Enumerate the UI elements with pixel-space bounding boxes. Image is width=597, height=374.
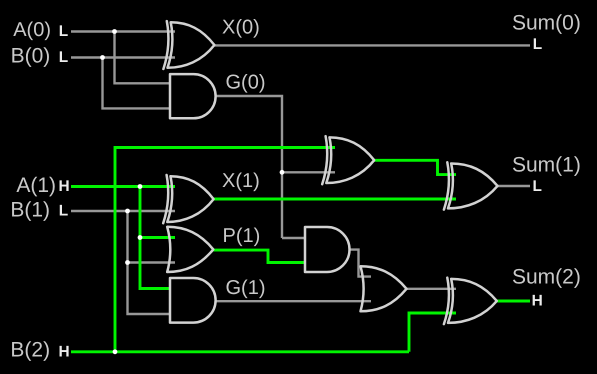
wire B(1) branch down to AND G1 bottom input [128,211,171,314]
wire Sum(0) from X0 output [214,44,530,46]
wire A(0) to XOR X0 [71,30,175,32]
wire G0 output right then down [216,96,283,238]
wire B(2) branch up to XOR U6 top input [115,148,335,352]
svg-text:L: L [59,49,68,66]
wire B(1) branch to OR P1 bottom input [128,261,176,263]
xor gate U9 Sum(1) [444,162,498,209]
wire B(1) to XOR X1 [71,210,175,212]
xor gate U10 Sum(2) [444,278,497,324]
svg-text:B(2): B(2) [10,339,50,362]
svg-text:G(0): G(0) [226,72,266,94]
and gate G(1) [170,278,216,323]
wire A(1) branch down to AND G1 top input [140,187,170,289]
and gate U7 carry and [305,227,350,272]
junction dot B(2) branch [113,349,118,354]
svg-text:A(1): A(1) [16,174,56,197]
xor gate U6 first stage of Sum1 [322,136,374,184]
wire Sum(2) output [497,300,530,303]
svg-text:P(1): P(1) [223,225,261,247]
svg-text:Sum(1): Sum(1) [512,153,581,176]
junction dot B(1) branch [125,209,130,214]
svg-text:G(1): G(1) [226,277,266,299]
svg-text:L: L [533,36,542,53]
svg-text:Sum(2): Sum(2) [512,265,581,288]
and gate G(0) [170,74,216,118]
svg-text:B(0): B(0) [11,45,51,68]
svg-text:X(0): X(0) [222,16,260,38]
junction dot B(1) to P1 [125,260,130,265]
wire AND U7 output to OR U8 top input [350,250,372,277]
xor gate X(0) [163,21,214,69]
wire B(2) horizontal [71,350,409,353]
or gate P(1) [167,227,213,272]
wire carry c1 to AND U7 top input [282,237,305,239]
svg-text:L: L [532,178,541,195]
wire B(2) up to XOR U10 bottom input [409,313,456,352]
svg-text:L: L [59,203,68,220]
junction dot A(1) branch [138,184,143,189]
or gate U8 carry or [361,266,407,311]
wire A(1) branch to OR P1 top input [140,236,175,239]
wire A(1) to XOR X1 [71,185,175,188]
xor gate X(1) [163,175,213,223]
svg-text:X(1): X(1) [222,170,260,192]
junction dot A(0) branch [112,29,117,34]
junction dot A(1) to P1 [138,235,143,240]
wire carry c1 branch to XOR U6 lower input [282,171,335,173]
svg-text:H: H [58,343,69,360]
wire P1 output to AND U7 bottom input [213,250,305,262]
svg-text:H: H [58,178,69,195]
wire OR U8 output to XOR U10 top input [407,288,457,290]
svg-text:B(1): B(1) [10,198,50,221]
svg-text:A(0): A(0) [13,19,51,41]
wire G1 output to OR U8 bottom input [216,300,371,302]
svg-text:L: L [59,23,68,40]
wire XOR U6 output to XOR U9 top input [374,160,456,174]
svg-text:H: H [532,293,543,310]
wire A(0) branch down to AND G0 top input [115,32,171,84]
wire Sum(1) output [498,185,531,187]
junction dot B(0) branch [100,55,105,60]
svg-text:Sum(0): Sum(0) [512,11,581,34]
wire B(0) branch down to AND G0 bottom input [103,58,171,109]
wire X1 output to XOR U9 bottom input [214,198,456,201]
wire B(0) to XOR X0 [71,56,175,58]
junction dot carry c1 branch [280,170,285,175]
